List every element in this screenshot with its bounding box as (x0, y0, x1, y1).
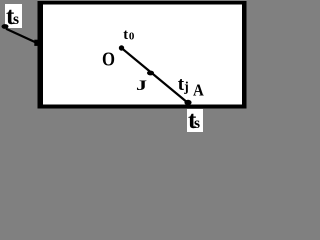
entry point marker (square dot on left border) (34, 40, 40, 46)
callout anchor dot (ellipse at box corner) (2, 24, 9, 29)
callout leader line (top-left) (6, 29, 37, 43)
svg-text:0: 0 (129, 31, 135, 43)
callout box ts (top-left) (5, 4, 22, 28)
label ts (top-left) (6, 3, 19, 30)
label t0 (123, 27, 135, 43)
svg-text:s: s (194, 115, 200, 132)
label tj (178, 74, 189, 95)
gray background (0, 0, 248, 136)
svg-text:s: s (13, 11, 19, 28)
point t0 (dot) (119, 45, 124, 50)
point ts (dot on bottom border) (184, 100, 191, 105)
screen interior (white) (43, 5, 242, 105)
label ts (bottom) (188, 107, 200, 134)
callout box ts (bottom) (187, 109, 203, 132)
trajectory line from t0 to ts (122, 48, 189, 103)
screen frame rectangle (black border) (38, 1, 247, 109)
svg-text:J: J (136, 78, 148, 94)
svg-text:A: A (193, 81, 204, 100)
point J (dot) (147, 71, 154, 76)
svg-text:t: t (123, 27, 128, 43)
svg-text:j: j (183, 79, 189, 94)
svg-text:O: O (102, 48, 115, 70)
